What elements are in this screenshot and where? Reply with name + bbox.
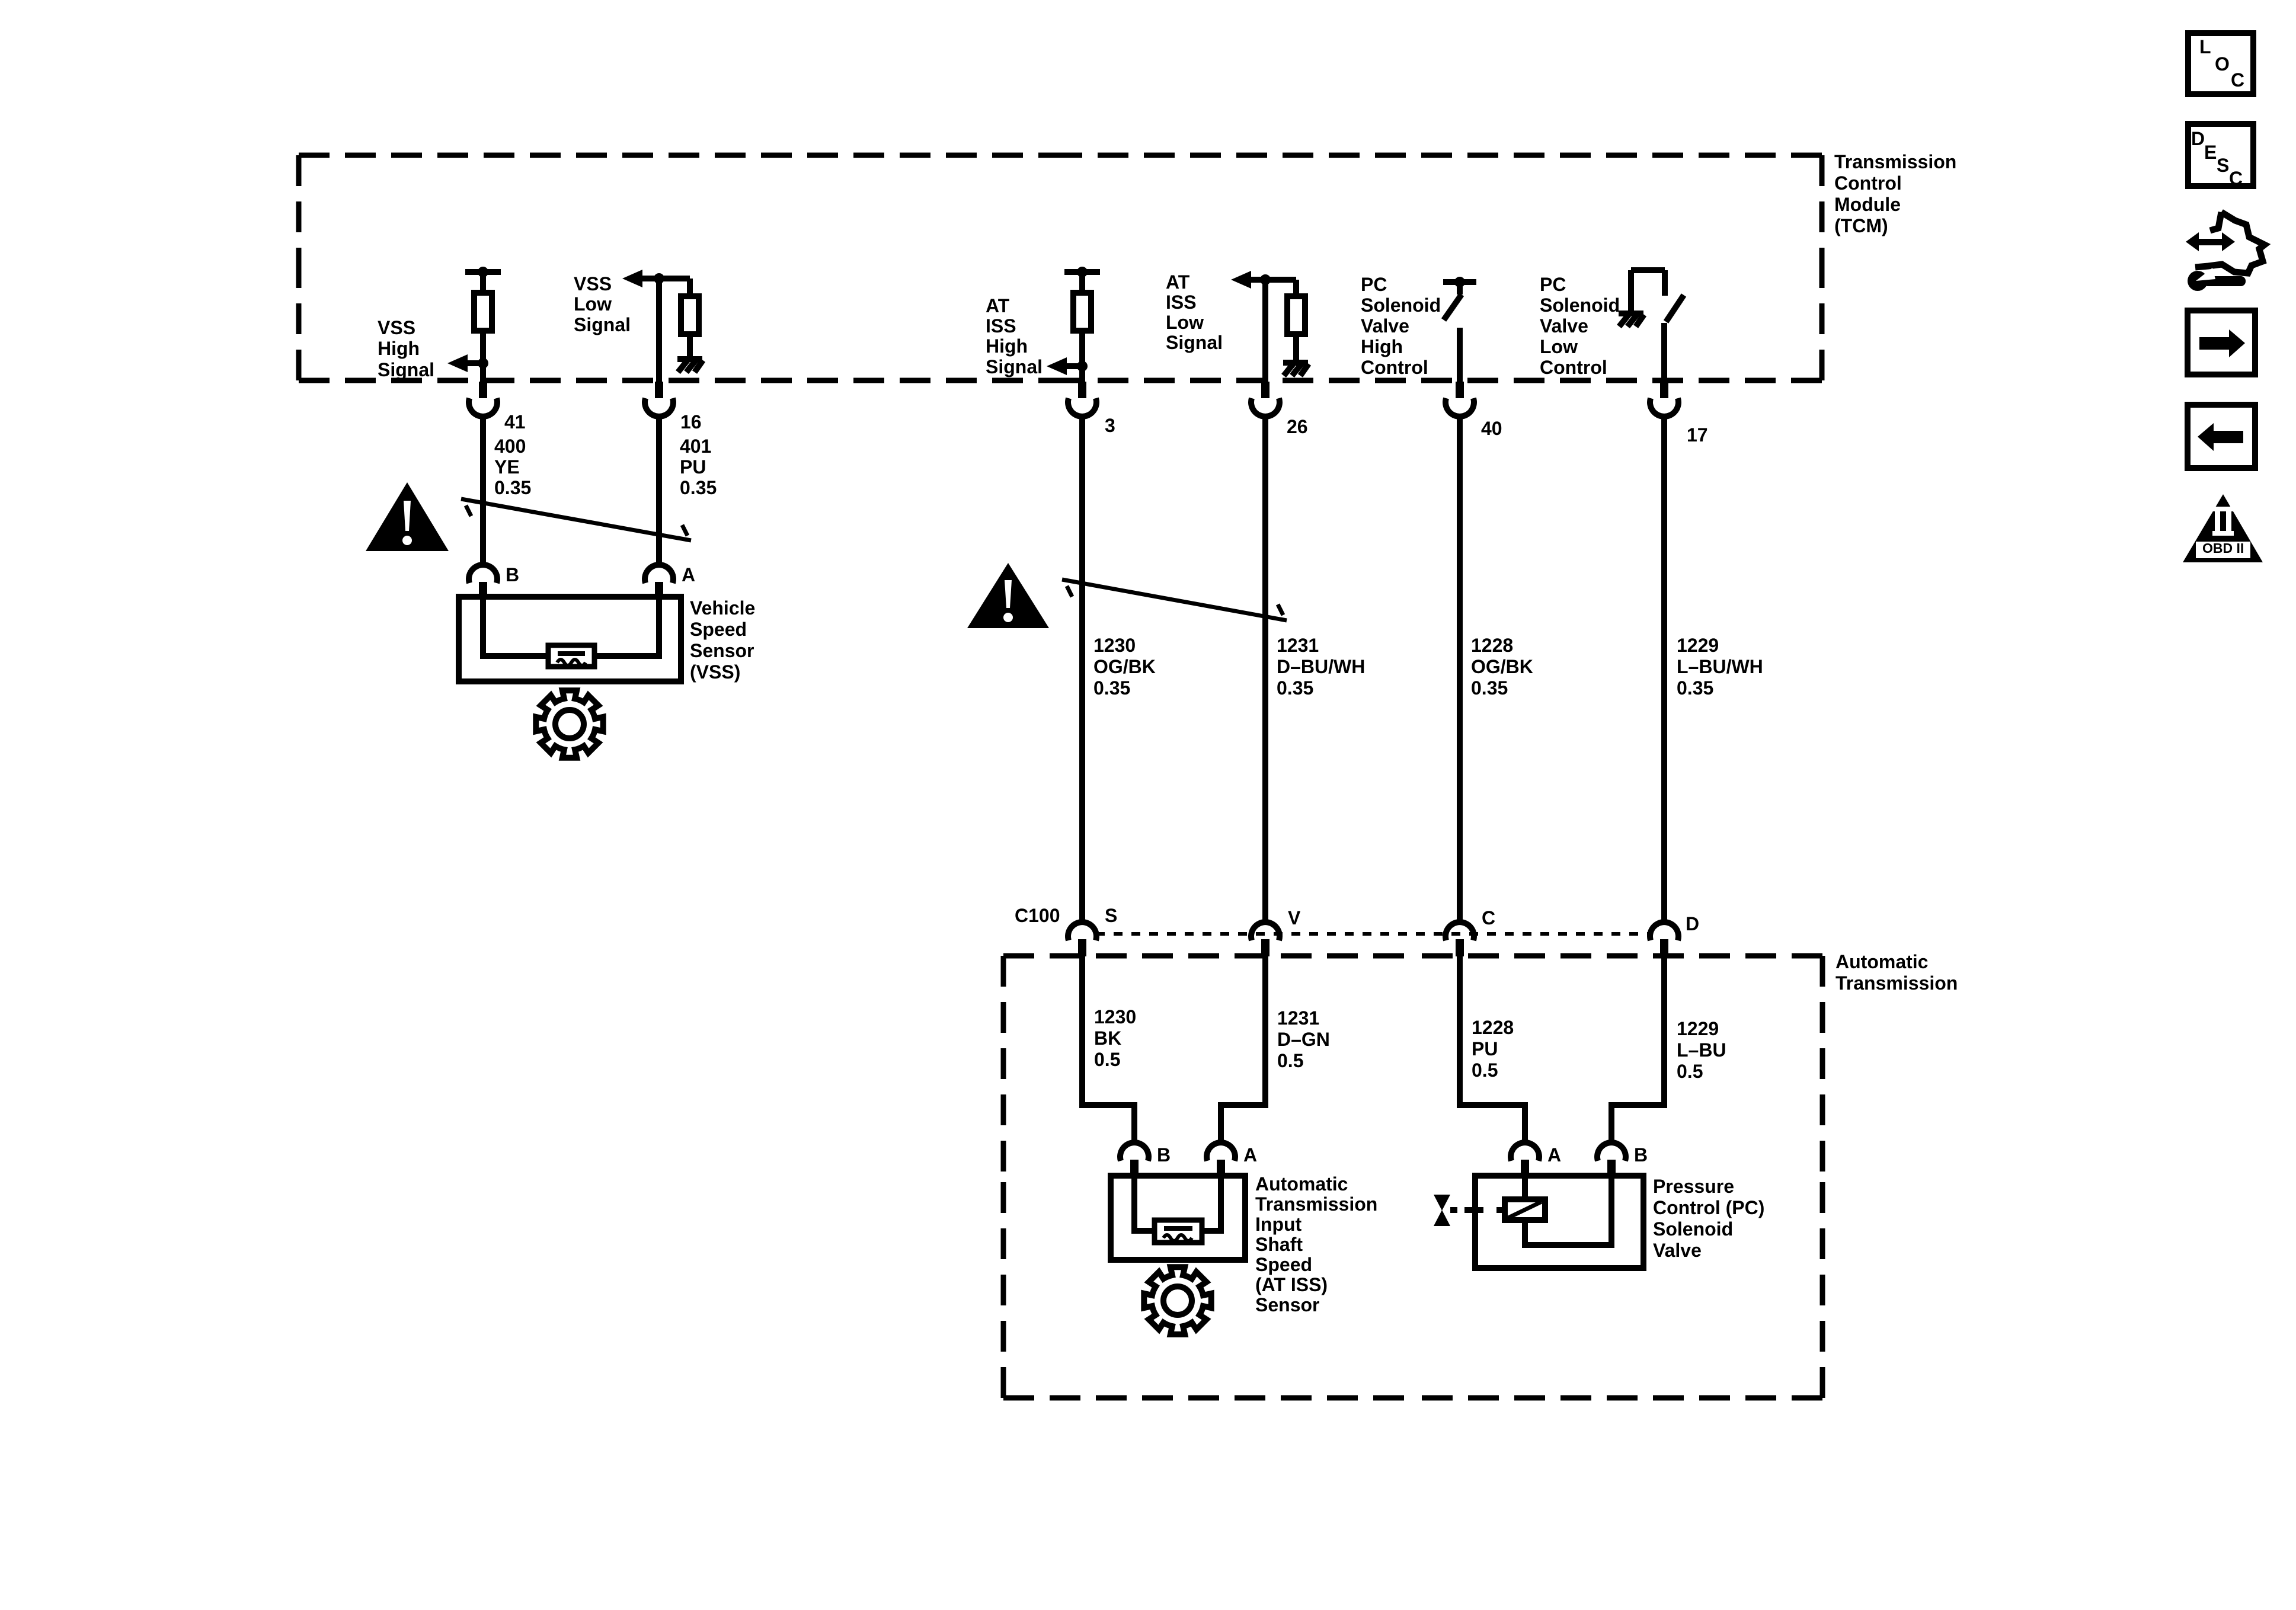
svg-text:3: 3 [1105, 415, 1115, 436]
svg-text:C100: C100 [1015, 905, 1060, 926]
svg-text:401: 401 [680, 436, 711, 457]
svg-text:VSS: VSS [574, 273, 612, 295]
svg-text:D–GN: D–GN [1277, 1029, 1330, 1050]
svg-text:(TCM): (TCM) [1834, 215, 1888, 236]
svg-text:Solenoid: Solenoid [1361, 295, 1441, 316]
svg-text:Low: Low [1166, 312, 1204, 333]
svg-text:Pressure: Pressure [1653, 1176, 1734, 1197]
svg-text:B: B [1157, 1144, 1171, 1166]
svg-text:V: V [1288, 907, 1301, 929]
svg-text:D–BU/WH: D–BU/WH [1277, 656, 1365, 677]
svg-text:Vehicle: Vehicle [690, 597, 755, 619]
svg-text:Valve: Valve [1361, 315, 1409, 337]
svg-text:1228: 1228 [1471, 635, 1513, 656]
svg-text:17: 17 [1687, 424, 1708, 446]
svg-text:1230: 1230 [1094, 1006, 1136, 1028]
svg-text:Speed: Speed [690, 619, 747, 640]
svg-text:Transmission: Transmission [1835, 972, 1958, 994]
svg-text:0.35: 0.35 [1277, 677, 1313, 699]
svg-text:OG/BK: OG/BK [1093, 656, 1156, 677]
svg-text:Module: Module [1834, 194, 1901, 215]
svg-text:AT: AT [986, 295, 1010, 316]
svg-text:B: B [506, 564, 519, 585]
svg-text:Automatic: Automatic [1255, 1173, 1348, 1195]
svg-text:Low: Low [1540, 336, 1578, 357]
svg-text:A: A [1243, 1144, 1257, 1166]
svg-text:High: High [986, 335, 1028, 357]
svg-text:Solenoid: Solenoid [1540, 295, 1620, 316]
svg-text:1231: 1231 [1277, 635, 1319, 656]
svg-text:PU: PU [1472, 1038, 1498, 1060]
svg-text:0.35: 0.35 [1677, 677, 1713, 699]
svg-text:Signal: Signal [986, 356, 1043, 377]
svg-text:Transmission: Transmission [1255, 1193, 1377, 1215]
svg-text:Signal: Signal [378, 359, 434, 380]
svg-text:0.5: 0.5 [1094, 1049, 1120, 1070]
svg-text:Signal: Signal [574, 314, 631, 335]
svg-text:0.5: 0.5 [1472, 1060, 1498, 1081]
svg-text:C: C [1482, 907, 1495, 929]
svg-text:Valve: Valve [1653, 1240, 1702, 1261]
svg-text:0.35: 0.35 [680, 477, 717, 498]
svg-text:0.35: 0.35 [1471, 677, 1508, 699]
svg-text:1231: 1231 [1277, 1007, 1319, 1029]
svg-text:0.35: 0.35 [494, 477, 531, 498]
svg-text:D: D [2191, 128, 2205, 149]
svg-text:26: 26 [1287, 416, 1308, 437]
svg-text:Signal: Signal [1166, 332, 1223, 353]
svg-text:BK: BK [1094, 1028, 1121, 1049]
svg-text:ISS: ISS [986, 315, 1016, 337]
svg-text:ISS: ISS [1166, 292, 1197, 313]
svg-text:YE: YE [494, 456, 520, 478]
svg-text:1230: 1230 [1093, 635, 1136, 656]
svg-text:Control: Control [1361, 357, 1428, 378]
svg-text:Control: Control [1540, 357, 1607, 378]
svg-text:PU: PU [680, 456, 706, 478]
svg-text:High: High [378, 338, 420, 359]
svg-text:40: 40 [1481, 418, 1502, 439]
svg-text:Shaft: Shaft [1255, 1234, 1303, 1255]
svg-text:D: D [1686, 913, 1699, 934]
svg-text:Input: Input [1255, 1214, 1302, 1235]
svg-text:O: O [2215, 53, 2230, 75]
svg-text:B: B [1634, 1144, 1648, 1166]
svg-text:High: High [1361, 336, 1403, 357]
svg-text:A: A [1547, 1144, 1561, 1166]
svg-text:(AT ISS): (AT ISS) [1255, 1274, 1328, 1295]
svg-text:Sensor: Sensor [1255, 1294, 1319, 1315]
svg-text:S: S [1105, 905, 1117, 926]
svg-text:400: 400 [494, 436, 526, 457]
svg-text:41: 41 [504, 411, 526, 433]
svg-text:E: E [2204, 142, 2217, 163]
svg-text:16: 16 [680, 411, 702, 433]
svg-text:Solenoid: Solenoid [1653, 1218, 1733, 1240]
svg-text:C: C [2231, 69, 2244, 91]
svg-text:Automatic: Automatic [1835, 951, 1928, 972]
svg-text:L–BU: L–BU [1677, 1039, 1726, 1061]
svg-text:C: C [2229, 168, 2243, 189]
svg-text:S: S [2217, 155, 2229, 176]
svg-text:1229: 1229 [1677, 1018, 1719, 1039]
svg-text:PC: PC [1540, 274, 1566, 295]
svg-text:Transmission: Transmission [1834, 151, 1956, 172]
svg-text:Control: Control [1834, 172, 1902, 194]
svg-text:L–BU/WH: L–BU/WH [1677, 656, 1763, 677]
svg-text:AT: AT [1166, 271, 1190, 293]
svg-text:Speed: Speed [1255, 1254, 1312, 1275]
svg-text:0.5: 0.5 [1277, 1050, 1303, 1071]
svg-text:Sensor: Sensor [690, 640, 754, 661]
svg-text:L: L [2199, 36, 2211, 57]
svg-text:VSS: VSS [378, 317, 415, 338]
svg-text:Valve: Valve [1540, 315, 1588, 337]
svg-text:PC: PC [1361, 274, 1387, 295]
svg-text:Control (PC): Control (PC) [1653, 1197, 1764, 1218]
svg-text:1229: 1229 [1677, 635, 1719, 656]
svg-text:OBD II: OBD II [2202, 540, 2244, 556]
svg-text:1228: 1228 [1472, 1017, 1514, 1038]
svg-text:Low: Low [574, 293, 612, 315]
svg-text:0.5: 0.5 [1677, 1061, 1703, 1082]
svg-text:(VSS): (VSS) [690, 661, 740, 683]
svg-text:0.35: 0.35 [1093, 677, 1130, 699]
svg-text:OG/BK: OG/BK [1471, 656, 1533, 677]
svg-text:A: A [682, 564, 695, 585]
